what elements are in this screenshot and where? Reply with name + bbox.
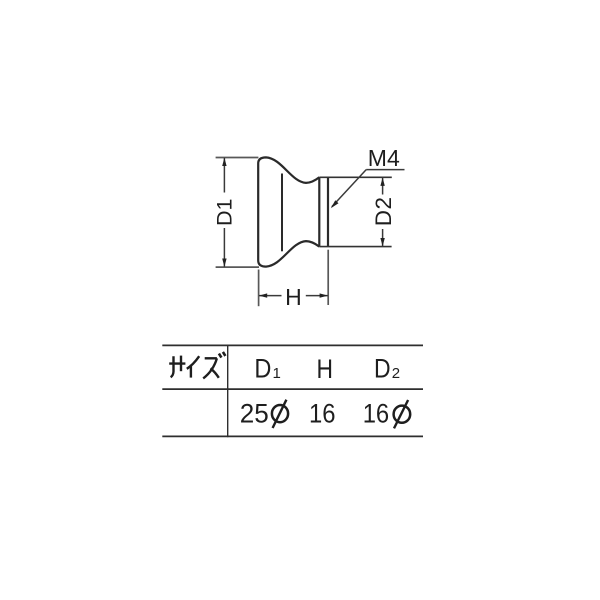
table top line <box>162 344 423 346</box>
katakana sa <box>169 362 185 364</box>
H dimension line left segment <box>259 295 282 297</box>
D1 arrow up <box>222 158 226 166</box>
svg-text:D2: D2 <box>371 196 396 226</box>
svg-text:16: 16 <box>309 399 336 429</box>
D1 top extension line <box>216 157 259 159</box>
flange right edge <box>327 177 329 246</box>
D2 arrow down <box>380 238 384 246</box>
H arrow right <box>320 293 328 297</box>
svg-text:25: 25 <box>240 399 269 429</box>
H dimension line right segment <box>306 295 328 297</box>
table bottom line <box>162 435 423 437</box>
flange bottom edge merged with D2 bottom extension line <box>319 246 391 248</box>
H left extension line <box>258 270 260 307</box>
header: katakana サイズ drawn as strokes <box>169 352 225 379</box>
svg-text:D: D <box>254 353 271 383</box>
knob outline (side view silhouette) <box>258 157 319 266</box>
M4 leader arrowhead <box>331 200 339 208</box>
katakana zu <box>205 357 217 359</box>
H right extension line <box>327 250 329 305</box>
D2 arrow up <box>380 178 384 186</box>
table vertical divider <box>227 345 229 437</box>
katakana i <box>187 356 199 369</box>
D1 dimension line upper segment <box>223 158 225 193</box>
M4 leader underline <box>366 169 404 171</box>
svg-text:1: 1 <box>273 365 281 382</box>
table middle line <box>162 388 423 390</box>
svg-text:H: H <box>317 354 334 384</box>
D1 dimension line lower segment <box>223 228 225 267</box>
svg-text:16: 16 <box>363 399 390 429</box>
D1 arrow down <box>222 259 226 267</box>
flange left edge <box>318 177 320 246</box>
phi symbol after 16 <box>394 400 411 428</box>
svg-text:H: H <box>285 284 302 310</box>
phi symbol after 25 <box>272 400 288 428</box>
D2 dimension line lower segment <box>382 229 384 246</box>
flange top edge merged with D2 top extension line <box>319 176 392 178</box>
svg-text:2: 2 <box>392 365 400 382</box>
M4 leader diagonal <box>332 170 366 207</box>
svg-text:D: D <box>374 353 391 383</box>
D1 bottom extension line <box>216 266 259 268</box>
H arrow left <box>259 293 267 297</box>
svg-text:D1: D1 <box>212 199 236 226</box>
D2 dimension line upper segment <box>382 178 384 195</box>
svg-text:M4: M4 <box>368 145 400 171</box>
knob face back-edge line <box>281 174 283 252</box>
